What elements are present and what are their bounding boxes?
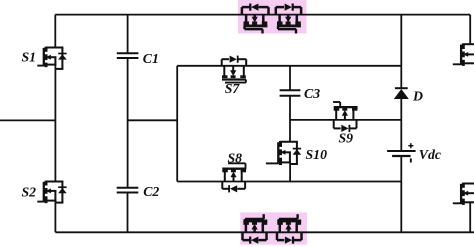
svg-text:S10: S10 — [306, 147, 328, 162]
svg-text:C3: C3 — [304, 86, 320, 101]
highlight box around top bidirectional switch pair — [238, 0, 307, 34]
wire S8 rail — [177, 181, 401, 183]
wire dc branch upper — [400, 15, 402, 88]
wire mid rail left segment — [128, 119, 178, 121]
transistor bottom pair right switch — [277, 214, 302, 244]
wire top rail — [55, 14, 470, 16]
transistor right leg lower partial — [453, 183, 474, 205]
transistor S9 — [333, 102, 358, 146]
battery Vdc — [387, 143, 441, 162]
svg-text:S7: S7 — [225, 81, 241, 96]
wire left rail upper segment — [54, 15, 56, 48]
wire bridge left vertical — [176, 66, 178, 182]
diode D symbol — [394, 88, 423, 103]
transistor bottom pair left switch — [243, 214, 268, 244]
svg-text:D: D — [412, 88, 423, 103]
wire capacitor branch middle — [127, 58, 129, 188]
wire capacitor branch upper — [127, 15, 129, 54]
svg-text:S9: S9 — [339, 131, 354, 146]
wire bottom rail — [55, 231, 474, 233]
wire S7 rail — [177, 65, 401, 67]
svg-text:C2: C2 — [143, 184, 159, 199]
transistor S1 — [22, 47, 67, 69]
transistor top pair right switch — [276, 4, 301, 34]
transistor right leg upper partial — [453, 43, 474, 66]
svg-text:S8: S8 — [228, 151, 243, 166]
transistor S10 — [266, 141, 327, 165]
wire capacitor branch lower — [127, 193, 129, 233]
wire C3 branch to S10 — [289, 96, 291, 142]
transistor S8 — [222, 151, 246, 193]
wire mid rail right segment — [290, 119, 401, 121]
svg-text:Vdc: Vdc — [419, 147, 441, 162]
svg-text:S1: S1 — [22, 50, 37, 65]
wire input terminal to midpoint of S1 S2 — [0, 119, 55, 121]
wire C3 branch upper — [289, 66, 291, 91]
highlight box around bottom bidirectional switch pair — [240, 212, 307, 244]
svg-text:C1: C1 — [143, 51, 159, 66]
wire top right drop — [469, 15, 471, 45]
wire S10 to S8 rail — [289, 162, 291, 181]
wire left rail lower segment — [54, 199, 56, 232]
svg-text:S2: S2 — [22, 185, 37, 200]
wire left rail middle segment — [54, 65, 56, 181]
transistor top pair left switch — [242, 4, 269, 34]
wire dc branch middle — [400, 99, 402, 151]
capacitor C2 plates — [117, 184, 160, 199]
transistor S2 — [22, 181, 67, 204]
capacitor C3 — [280, 86, 321, 101]
wire bottom right riser — [469, 202, 471, 232]
wire dc branch lower — [400, 156, 402, 232]
capacitor C1 plates — [117, 51, 159, 66]
transistor S7 — [222, 56, 247, 96]
